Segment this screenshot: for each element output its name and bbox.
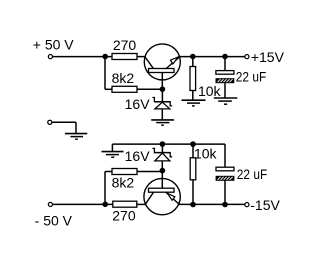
svg-text:- 50 V: - 50 V [35,212,73,228]
svg-text:16V: 16V [125,148,151,164]
svg-text:22 uF: 22 uF [236,69,266,85]
svg-text:+15V: +15V [251,49,285,65]
svg-text:16V: 16V [125,96,151,112]
svg-text:22 uF: 22 uF [237,166,267,182]
svg-text:10k: 10k [198,83,222,99]
svg-text:+ 50 V: + 50 V [33,37,75,53]
svg-text:8k2: 8k2 [112,175,135,191]
svg-text:8k2: 8k2 [112,70,135,86]
svg-text:270: 270 [112,208,136,224]
svg-text:10k: 10k [194,145,218,161]
svg-text:270: 270 [113,37,137,53]
svg-text:-15V: -15V [250,197,280,213]
